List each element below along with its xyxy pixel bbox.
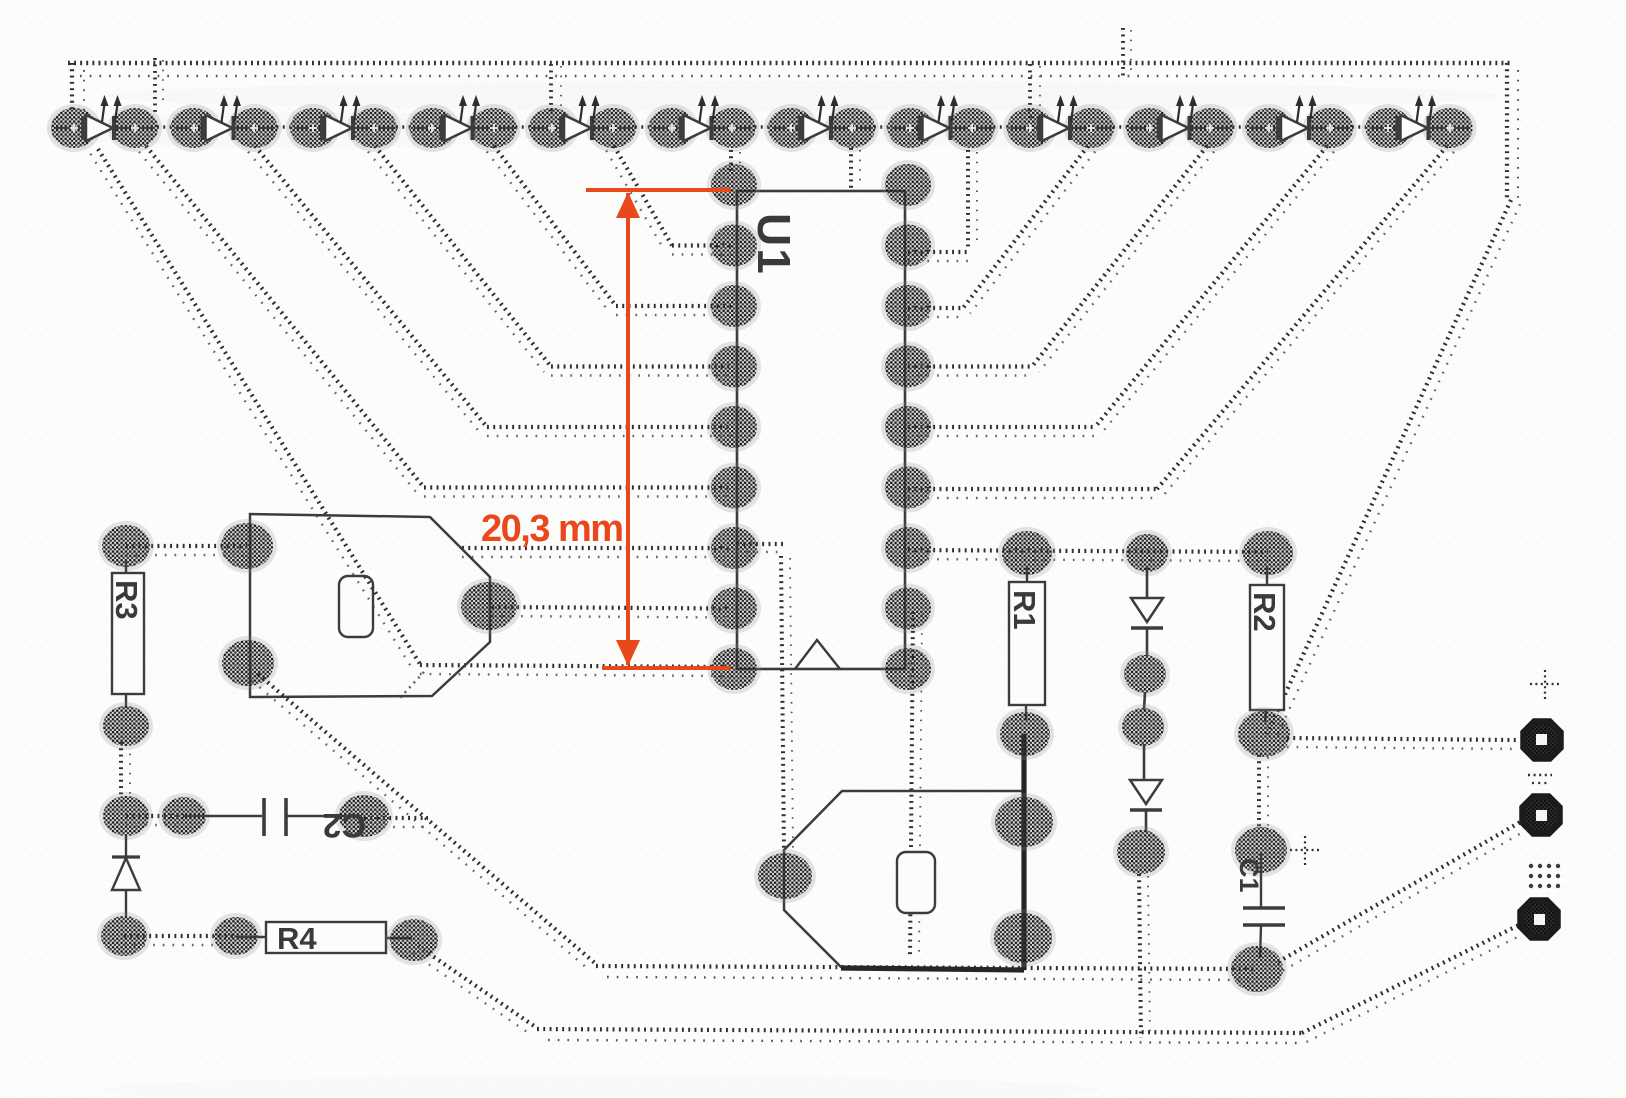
resistor R2 [1234,527,1297,761]
svg-text:R2: R2 [1247,592,1282,632]
wire: Q2 right edge / bottom edge (solid heavy) [841,734,1024,970]
U1 pin pad L7 [707,523,761,573]
U1 pin pad R8 [881,584,935,634]
diode D5 [1120,530,1172,697]
connector pad J3 [1521,901,1558,938]
label C1 [1234,858,1264,893]
U1 pin pad R4 [881,342,935,392]
wire: bottom rail 1 [596,966,1255,980]
wire: horizontal trace into pad R2 [908,252,970,261]
wire: LED D2 cathode diagonal to pad L5 [248,146,487,433]
wire: LED D12 cathode diagonal to pad R6 [1157,146,1454,495]
LED D5 [525,95,649,152]
wire: stub tail at L9 trace left end [398,672,424,700]
wire: horizontal trace into pad L2 [672,246,731,255]
U1 pin pad R9 [881,644,935,694]
wire: right border corner drop [1507,63,1518,200]
resistor R1 [996,527,1056,760]
svg-text:20,3 mm: 20,3 mm [481,508,623,550]
wire: R3 to Q1 base [126,546,247,555]
label R4 [277,921,317,956]
wire: LED D5 anode stub from top rail [551,64,561,116]
wire: LED D7 cathode drop to U1 top edge [851,148,860,188]
wire: bottom rail 2 diagonal up to dark pad 3 [1302,924,1526,1042]
wire: LED D10 cathode diagonal to pad R4 [1032,146,1214,372]
U1 pin pad L6 [707,463,761,513]
capacitor C1 [1227,823,1291,996]
label R1 [1007,590,1042,630]
node pad (R3/C2/D13 junction) [99,792,153,840]
wire: top border rail (dotted, heavy) [68,61,1511,66]
wire: horizontal trace into pad R3 [908,308,963,317]
LED D1 [47,95,171,152]
dimension line top (orange) [586,188,731,192]
wire: R3 to C2/D13 node [121,742,130,798]
wire: LED D8 cathode drop [968,150,977,250]
wire: horizontal trace into pad L3 [616,306,731,315]
wire: horizontal trace into pad L6 [424,488,731,497]
node: plus mark near C1 [1290,836,1320,865]
wire: horizontal trace into pad R4 [908,367,1032,376]
U1 pin pad R2 [881,221,935,271]
label R3 [109,580,144,620]
capacitor C2 [158,791,393,841]
wire: LED D1 cathode diagonal to pad L6 [139,146,424,493]
Q2 pad (base, left) [754,849,816,903]
diode D13 [97,836,151,960]
wire: horizontal trace Q1 collector to pad L8 [492,607,731,618]
wire: D5 to D6 [1118,692,1168,750]
svg-text:C2: C2 [323,806,366,844]
wire: LED D3 cathode diagonal to pad L4 [368,146,551,372]
wire: horizontal trace into pad L4 [551,367,731,376]
LED D4 [406,95,530,152]
wire: LED D11 cathode diagonal to pad R5 [1095,146,1334,433]
dimension arrow vertical (orange) [616,192,640,666]
dimension line bottom (orange) [602,666,731,670]
Q2 pad (collector, right top) [991,793,1057,851]
wire: top border rail (dotted, light) [80,75,1502,77]
wire: stub near left corner [155,58,163,112]
U1 pin pad R1 [881,160,935,210]
node: hash mark above J3 [1529,864,1560,888]
LED D11 [1242,95,1366,152]
label R2 [1247,592,1282,632]
U1 pin pad L2 [707,221,761,271]
U1 pin pad L1 [707,160,761,210]
U1 pin pad L9 [707,644,761,694]
LED D7 [764,95,888,152]
connector pad J1 (+) [1524,722,1561,759]
resistor R4 [210,913,442,965]
IC U1 outline [737,191,905,669]
wire: junction to C2 left pad [126,816,184,825]
wire: right border diagonal to R2 pad [1266,200,1520,740]
LED D6 [645,95,769,152]
wire: LED D9 anode stub from top rail [1030,64,1040,118]
U1 pin pad R6 [881,463,935,513]
wire: horizontal trace into pad L9 [420,665,731,676]
label U1 [748,213,800,276]
wire: left border drop to LED D1 anode [72,63,84,112]
Q1 pad (top-left) [217,519,277,573]
Q2 pad (emitter, right bottom) [990,909,1056,967]
wire: LED D1 anode long diagonal to pad L9 trace [90,149,420,669]
U1 pin pad L3 [707,281,761,331]
wire: stub above border at x=1123 [1123,28,1131,80]
wire: R2 to C1 [1259,755,1268,830]
Q1 pad (bottom-left) [218,636,278,690]
transistor Q2 outline [784,791,1024,969]
wire: bottom rail 2 [537,1029,1302,1043]
svg-text:C1: C1 [1234,858,1264,893]
wire: horizontal trace into pad L5 [487,427,731,436]
LED D2 [167,95,291,152]
transistor Q1 outline [250,514,490,697]
wire: C1 bottom pad diagonal to connector J2 [1278,821,1527,971]
LED D12 [1362,95,1477,152]
U1 pin pad L4 [707,342,761,392]
wire: LED D4 cathode diagonal to pad L3 [487,146,616,312]
U1 pin pad R5 [881,402,935,452]
wire: LED D9 cathode diagonal to pad R3 [963,146,1095,314]
wire: D13 to R4 [124,936,236,945]
wire: C2 right pad to diagonal junction [364,818,428,827]
wire: R2 pad to connector J1 [1287,738,1517,749]
wire: horizontal trace into pad R5 [908,427,1095,436]
wire: horizontal trace Q1 to pad L7 [462,548,731,557]
Q1 pad (right) [457,578,521,634]
wire: drop from pad R8 to Q2 [910,612,922,958]
LED D3 [286,95,410,152]
node: plus mark above J1 [1530,670,1560,699]
wire: Q1 emitter diagonal to bottom rail [252,674,596,971]
U1 pin pad L8 [707,584,761,634]
resistor R3 [98,521,154,750]
U1 pin pad R3 [881,281,935,331]
LED D8 [884,95,1008,152]
dimension label 20,3 mm [481,508,623,550]
diode D6 [1113,744,1169,878]
LED D9 [1003,95,1127,152]
label C2 [323,806,366,844]
wire: R4 diagonal to bottom rail 2 [413,946,537,1035]
wire: jog from pad L7 down to Q2 base pad [737,544,793,852]
wire: LED D6 cathode to U1 pad L1 [731,150,740,172]
LED D10 [1123,95,1247,152]
connector pad J2 [1523,797,1560,834]
svg-text:R4: R4 [277,921,317,956]
U1 pin pad R7 [881,523,935,573]
wire: D6 cathode drop through bottom rails [1139,874,1150,1038]
wire: stub between J1 and J2 [1528,775,1552,783]
wire: LED D5 cathode diagonal to pad L2 [606,146,672,250]
svg-text:R1: R1 [1007,590,1042,630]
svg-text:R3: R3 [109,580,144,620]
wire: bus from pad R7 to R1, D5, R2 top pads [908,550,1268,561]
wire: horizontal trace into pad R6 [908,489,1157,498]
U1 pin pad L5 [707,402,761,452]
